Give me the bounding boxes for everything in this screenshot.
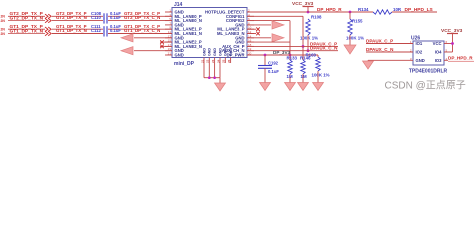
svg-text:GT2_DP_TX_N: GT2_DP_TX_N [56, 15, 87, 20]
svg-text:DPAUX_C_P: DPAUX_C_P [366, 39, 393, 44]
svg-text:C192: C192 [268, 61, 279, 66]
svg-text:J14: J14 [174, 2, 183, 8]
svg-text:DP_HPD_LS: DP_HPD_LS [405, 7, 434, 13]
svg-text:25: 25 [222, 59, 226, 63]
svg-text:R169: R169 [306, 52, 317, 57]
svg-text:10R: 10R [393, 7, 402, 12]
svg-text:R133: R133 [287, 56, 298, 61]
svg-text:23: 23 [211, 59, 215, 63]
svg-text:R134: R134 [358, 7, 369, 12]
svg-text:GND: GND [175, 53, 184, 58]
svg-text:DP_HPD_R: DP_HPD_R [317, 7, 342, 12]
svg-text:IO1: IO1 [416, 41, 423, 46]
svg-text:DP_HPD_R: DP_HPD_R [448, 56, 473, 61]
svg-text:DPAUX_C_N: DPAUX_C_N [366, 47, 394, 52]
svg-text:DP_3V3: DP_3V3 [273, 50, 291, 55]
svg-text:2N: 2N [1, 32, 6, 36]
svg-text:IO3: IO3 [435, 58, 442, 63]
svg-text:GT2_DP_TX_C_N: GT2_DP_TX_C_N [124, 15, 160, 20]
svg-text:R108: R108 [311, 15, 322, 20]
svg-text:22: 22 [206, 59, 210, 63]
svg-text:TPD4E001DRLR: TPD4E001DRLR [409, 69, 448, 75]
svg-text:26: 26 [227, 59, 231, 63]
svg-text:GND: GND [229, 48, 233, 56]
svg-text:C110: C110 [91, 15, 101, 20]
svg-text:C112: C112 [91, 28, 101, 33]
svg-text:mini_DP: mini_DP [174, 61, 195, 67]
svg-text:R155: R155 [352, 19, 363, 24]
svg-text:0.1uF: 0.1uF [110, 15, 121, 20]
svg-text:100K 1%: 100K 1% [346, 35, 364, 40]
svg-text:GND: GND [208, 48, 212, 56]
svg-text:1M: 1M [287, 74, 293, 79]
svg-text:GT1_DP_TX_C_N: GT1_DP_TX_C_N [124, 28, 160, 33]
svg-text:1M: 1M [301, 74, 307, 79]
svg-text:100K 1%: 100K 1% [312, 72, 330, 77]
svg-text:VCC_3V3: VCC_3V3 [441, 28, 463, 34]
svg-text:IO2: IO2 [416, 50, 423, 55]
svg-text:GND: GND [416, 58, 425, 63]
svg-text:GND: GND [218, 48, 222, 56]
svg-text:2N: 2N [1, 19, 6, 23]
svg-text:21: 21 [200, 59, 204, 63]
svg-text:24: 24 [216, 59, 220, 63]
svg-text:GND: GND [213, 48, 217, 56]
svg-text:IO4: IO4 [435, 50, 442, 55]
svg-text:CSDN @正点原子: CSDN @正点原子 [385, 80, 466, 92]
svg-text:VCC: VCC [433, 41, 442, 46]
svg-text:GND: GND [202, 48, 206, 56]
svg-text:GT1_DP_TX_N: GT1_DP_TX_N [56, 28, 87, 33]
svg-text:GND: GND [224, 48, 228, 56]
svg-text:21: 21 [168, 52, 172, 56]
svg-text:0.1uF: 0.1uF [110, 28, 121, 33]
svg-text:0.1uF: 0.1uF [268, 69, 279, 74]
svg-text:DPAUX_C_N: DPAUX_C_N [310, 46, 338, 51]
